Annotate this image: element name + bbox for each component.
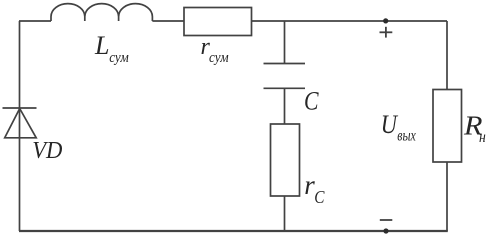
wire right rail upper xyxy=(446,21,448,90)
capacitor C top plate xyxy=(264,63,306,65)
wire capacitor to r_C xyxy=(284,88,286,124)
svg-text:н: н xyxy=(479,129,486,146)
resistor r_C xyxy=(271,124,300,196)
wire node A to top-right corner xyxy=(285,20,448,22)
svg-text:вых: вых xyxy=(397,128,416,145)
svg-text:U: U xyxy=(381,110,399,139)
wire inductor to resistor xyxy=(152,20,184,22)
wire resistor to node A xyxy=(252,20,285,22)
wire right rail lower xyxy=(446,162,448,231)
inductor L_sum xyxy=(51,4,152,21)
plus terminal mark xyxy=(380,27,393,38)
minus terminal mark xyxy=(380,219,393,221)
resistor R_n xyxy=(433,90,462,163)
wire top left segment xyxy=(19,20,51,22)
wire r_C to bottom rail xyxy=(284,196,286,231)
wire bottom rail xyxy=(19,230,448,232)
svg-text:сум: сум xyxy=(109,50,129,66)
capacitor C bottom plate xyxy=(264,87,306,89)
svg-text:L: L xyxy=(94,31,109,60)
diode VD cathode bar xyxy=(3,107,37,109)
wire node A down to capacitor xyxy=(284,21,286,64)
svg-text:C: C xyxy=(304,86,319,115)
wire left rail xyxy=(19,21,21,231)
svg-text:C: C xyxy=(314,187,324,207)
diode VD triangle xyxy=(5,109,37,138)
node dot bottom (- terminal) xyxy=(383,228,388,233)
node dot top (+ terminal) xyxy=(383,18,388,23)
resistor r_sum xyxy=(184,8,252,36)
svg-text:VD: VD xyxy=(32,137,62,164)
svg-text:сум: сум xyxy=(209,50,229,66)
